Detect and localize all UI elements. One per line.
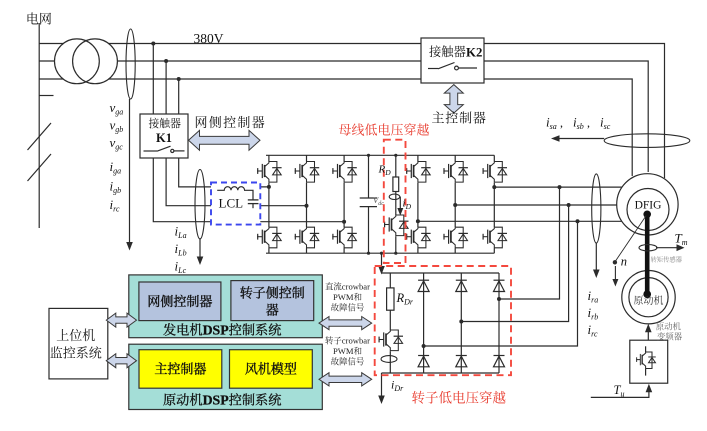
svg-text:转子crowbar: 转子crowbar (325, 335, 370, 347)
svg-text:接触器: 接触器 (429, 42, 466, 60)
svg-text:变频器: 变频器 (657, 331, 683, 343)
svg-text:母线低电压穿越: 母线低电压穿越 (339, 120, 430, 139)
svg-text:主控制器: 主控制器 (154, 359, 206, 378)
svg-text:主控制器: 主控制器 (432, 108, 487, 127)
svg-text:转子低电压穿越: 转子低电压穿越 (412, 387, 507, 407)
svg-text:接触器: 接触器 (149, 116, 182, 131)
svg-text:原动机DSP控制系统: 原动机DSP控制系统 (163, 390, 282, 409)
svg-text:故障信号: 故障信号 (331, 356, 365, 368)
svg-text:网侧控制器: 网侧控制器 (147, 291, 212, 310)
svg-text:发电机DSP控制系统: 发电机DSP控制系统 (163, 320, 282, 339)
svg-text:K1: K1 (156, 131, 172, 145)
svg-text:故障信号: 故障信号 (331, 302, 365, 314)
svg-text:器: 器 (266, 300, 279, 319)
svg-text:风机模型: 风机模型 (245, 359, 297, 378)
svg-text:原动机: 原动机 (634, 292, 664, 307)
svg-text:n: n (621, 255, 627, 269)
svg-text:电网: 电网 (26, 9, 52, 28)
svg-text:上位机: 上位机 (56, 325, 95, 344)
svg-text:监控系统: 监控系统 (50, 343, 102, 362)
svg-text:转矩传感器: 转矩传感器 (651, 255, 683, 264)
svg-text:直流crowbar: 直流crowbar (325, 281, 370, 293)
svg-text:K2: K2 (466, 46, 482, 60)
svg-text:LCL: LCL (219, 196, 244, 211)
svg-text:380V: 380V (194, 31, 224, 46)
svg-text:网侧控制器: 网侧控制器 (195, 112, 267, 131)
svg-text:DFIG: DFIG (635, 200, 662, 212)
svg-text:,: , (560, 116, 563, 130)
svg-text:,: , (587, 116, 590, 130)
